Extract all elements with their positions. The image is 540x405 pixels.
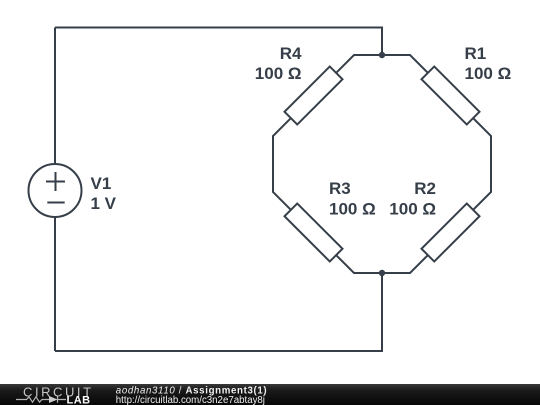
- node A (top junction): [379, 52, 385, 58]
- node B (bottom junction): [379, 270, 385, 276]
- label R3 value: [329, 179, 376, 218]
- label R2 value: [389, 179, 436, 218]
- wire top rail: [55, 28, 382, 56]
- svg-text:100 Ω: 100 Ω: [255, 64, 302, 83]
- svg-text:R1: R1: [465, 44, 487, 63]
- svg-text:100 Ω: 100 Ω: [389, 199, 436, 218]
- wire bridge left half (node A to node B via R4/R3): [273, 55, 382, 273]
- svg-text:1 V: 1 V: [91, 194, 117, 213]
- wire bottom rail: [55, 273, 382, 351]
- svg-text:100 Ω: 100 Ω: [465, 64, 512, 83]
- svg-text:http://circuitlab.com/c3n2e7ab: http://circuitlab.com/c3n2e7abtay8j: [116, 395, 265, 405]
- svg-text:LAB: LAB: [67, 394, 91, 405]
- label R1 value: [465, 44, 512, 83]
- svg-text:V1: V1: [91, 174, 112, 193]
- svg-text:R4: R4: [280, 44, 302, 63]
- resistor R4: [285, 67, 343, 125]
- voltage source V1: [29, 164, 82, 217]
- svg-text:R3: R3: [329, 179, 351, 198]
- resistor R1: [422, 67, 480, 125]
- svg-text:R2: R2: [414, 179, 436, 198]
- footer bar: [0, 384, 540, 405]
- label R4 value: [255, 44, 302, 83]
- wire top-left vertical (V1 top to top rail): [54, 28, 56, 165]
- footer logo wire with resistor and diode: [16, 396, 66, 403]
- wire bottom-left vertical (V1 bottom to bottom rail): [54, 217, 56, 351]
- wire bridge right half (node A to node B via R1/R2): [382, 55, 491, 273]
- resistor R2: [422, 204, 480, 262]
- svg-text:100 Ω: 100 Ω: [329, 199, 376, 218]
- resistor R3: [285, 204, 343, 262]
- label V1 value: [91, 174, 117, 213]
